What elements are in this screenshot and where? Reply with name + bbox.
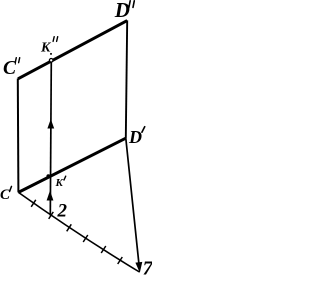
svg-text:K: K [40, 41, 52, 56]
svg-text:7: 7 [143, 257, 152, 279]
svg-text:K: K [55, 177, 64, 189]
svg-text:2: 2 [57, 200, 68, 221]
svg-text:D: D [114, 0, 130, 22]
svg-text:D: D [128, 127, 142, 147]
svg-text:C: C [0, 187, 11, 203]
